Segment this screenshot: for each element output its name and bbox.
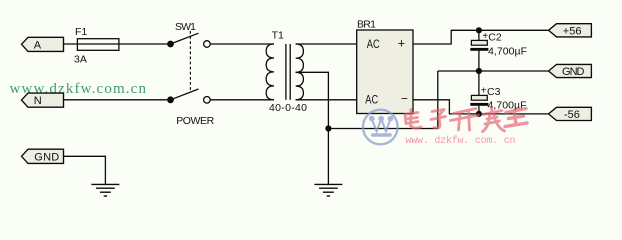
switch SW1 <box>167 21 215 127</box>
svg-text:AC: AC <box>367 39 380 51</box>
char kai <box>451 109 479 131</box>
svg-text:C3: C3 <box>487 86 501 98</box>
char dian <box>405 110 421 129</box>
wire transformer-to-BR1 bottom <box>296 99 357 101</box>
watermark red chinese characters <box>405 107 527 132</box>
svg-text:40-0-40: 40-0-40 <box>269 102 307 114</box>
bottom pole open contact <box>204 97 211 104</box>
svg-text:A: A <box>34 39 42 51</box>
wire GND terminal <box>64 156 106 184</box>
secondary winding <box>296 44 304 100</box>
port +56 <box>549 24 592 38</box>
junction C2 top <box>476 27 482 33</box>
wire center tap to ground <box>296 72 329 184</box>
svg-text:BR1: BR1 <box>357 19 376 31</box>
top pole open contact <box>204 41 211 48</box>
wire switch-to-transformer bottom <box>210 99 274 101</box>
bridge rectifier BR1 <box>357 19 413 114</box>
port GND right <box>549 64 592 78</box>
char zi <box>431 110 446 128</box>
wire gnd link <box>328 71 437 129</box>
wire gnd rail <box>438 70 549 72</box>
top pole contact dot <box>167 41 174 48</box>
junction center tap gnd link <box>325 125 331 131</box>
char fa <box>483 107 505 132</box>
core <box>285 44 287 100</box>
capacitor C3 <box>470 86 526 112</box>
svg-text:www. dzkfw. com. cn: www. dzkfw. com. cn <box>406 135 516 147</box>
svg-text:T1: T1 <box>272 30 284 42</box>
wire C2 leads <box>478 30 480 40</box>
junction C3 bottom <box>476 111 482 117</box>
svg-text:3A: 3A <box>74 54 87 66</box>
fuse F1 <box>74 26 119 66</box>
svg-text:GND: GND <box>562 66 585 78</box>
char wang <box>505 109 527 127</box>
wire BR1 minus output <box>413 100 549 114</box>
terminal N <box>22 93 64 107</box>
top pole lever <box>171 33 199 44</box>
wire N-to-switch bottom <box>64 99 168 101</box>
wire C3 leads <box>478 71 480 95</box>
port -56 <box>549 107 592 121</box>
primary winding <box>266 44 274 100</box>
svg-text:POWER: POWER <box>176 115 214 127</box>
svg-text:C2: C2 <box>488 31 502 43</box>
wire transformer-to-BR1 top <box>296 43 357 45</box>
ground symbol left <box>91 184 119 196</box>
svg-text:AC: AC <box>365 94 378 106</box>
svg-text:−: − <box>401 92 408 106</box>
svg-text:+: + <box>398 37 405 51</box>
bottom pole lever <box>171 89 199 100</box>
watermark center: blue W logo <box>363 110 398 145</box>
svg-text:-56: -56 <box>564 109 580 121</box>
svg-text:4,700µF: 4,700µF <box>488 45 527 57</box>
junction gnd rail C3 top <box>476 68 482 74</box>
ground symbol center tap <box>314 184 342 196</box>
capacitor C2 <box>470 31 527 58</box>
svg-text:+56: +56 <box>563 25 582 37</box>
transformer T1 <box>266 30 307 115</box>
terminal GND left <box>22 149 64 163</box>
svg-text:F1: F1 <box>75 26 87 38</box>
svg-text:N: N <box>34 95 42 107</box>
svg-text:SW1: SW1 <box>175 21 196 33</box>
wire BR1 plus output <box>413 30 549 44</box>
wire switch-to-transformer top <box>210 43 274 45</box>
terminal A <box>22 37 64 51</box>
wire A-to-switch top <box>64 43 168 45</box>
gang dashed link <box>189 31 191 91</box>
bottom pole contact dot <box>167 96 174 103</box>
svg-text:GND: GND <box>34 151 59 163</box>
svg-text:+: + <box>481 86 487 97</box>
